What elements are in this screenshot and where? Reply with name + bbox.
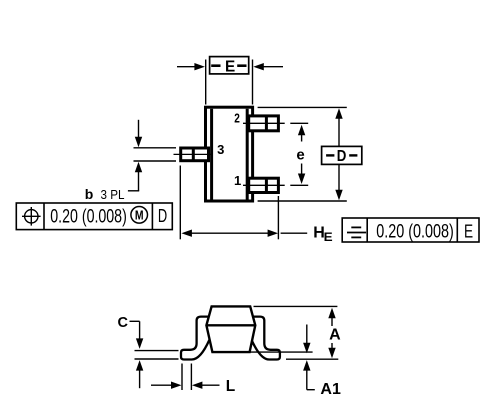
dimension b arrow up with leader xyxy=(128,162,142,191)
dimension HE dimension line with arrows xyxy=(181,230,307,237)
side view package body xyxy=(206,306,255,352)
svg-text:b: b xyxy=(85,186,94,202)
dimension b label xyxy=(85,186,125,202)
body inner line right xyxy=(246,109,249,200)
side view left lead fill xyxy=(181,317,210,360)
svg-text:A1: A1 xyxy=(320,381,341,398)
svg-text:0.20 (0.008): 0.20 (0.008) xyxy=(376,220,454,242)
pin 3 centerline xyxy=(174,153,213,155)
svg-text:E: E xyxy=(464,221,473,241)
svg-text:2: 2 xyxy=(234,110,240,125)
dimension b arrow down xyxy=(135,120,142,147)
pin 3 xyxy=(181,148,209,161)
package body (top view) xyxy=(206,107,253,201)
dimension A arrow up xyxy=(328,308,335,326)
position symbol xyxy=(22,207,41,226)
dimension L arrow right-pointing xyxy=(151,382,182,389)
dimension D arrow up xyxy=(335,108,342,146)
pin 2 xyxy=(249,116,279,131)
side view right lead fill xyxy=(251,317,280,360)
svg-text:C: C xyxy=(118,315,129,331)
dimension e extension stub top xyxy=(290,122,308,124)
svg-text:E: E xyxy=(324,230,333,244)
dimension L extension line right xyxy=(190,364,192,391)
svg-text:3: 3 xyxy=(217,142,224,157)
svg-text:e: e xyxy=(296,147,304,164)
seating plane extension line xyxy=(286,358,338,360)
symmetry symbol xyxy=(347,227,366,237)
dimension A arrow down xyxy=(328,343,335,358)
svg-text:3 PL: 3 PL xyxy=(101,187,125,202)
dimension C extension line top xyxy=(135,350,179,352)
dimension HE label xyxy=(313,225,332,244)
dimension E arrow right xyxy=(253,63,283,70)
svg-text:D: D xyxy=(158,206,167,226)
pin 1 xyxy=(249,178,279,192)
dimension A1 arrow up with elbow xyxy=(303,360,315,390)
dimension A1 arrow down xyxy=(303,325,310,354)
dimension C arrow up xyxy=(136,360,143,388)
dimension b extension line bottom xyxy=(134,160,177,162)
dimension L extension line left xyxy=(181,364,183,391)
svg-text:A: A xyxy=(329,327,341,344)
dimension D extension line top xyxy=(258,106,347,108)
dimension A top extension line xyxy=(254,305,338,307)
dimension E extension line left xyxy=(205,60,207,105)
dimension E label box xyxy=(210,57,249,76)
dimension D label box xyxy=(322,146,362,164)
side view right lead outline xyxy=(251,317,280,360)
side view left lead outline xyxy=(181,317,210,360)
body bottom extension line xyxy=(251,351,313,353)
dimension e extension stub bottom xyxy=(290,184,308,186)
pin 2 centerline xyxy=(243,122,285,124)
svg-text:M: M xyxy=(135,208,144,223)
svg-text:D: D xyxy=(337,148,347,165)
dimension e arrow up xyxy=(298,125,305,142)
dimension D arrow down xyxy=(335,164,342,200)
modifier M circle xyxy=(131,207,148,224)
svg-text:0.20 (0.008): 0.20 (0.008) xyxy=(50,205,127,227)
dimension D extension line bottom xyxy=(258,200,347,202)
dimension e arrow down xyxy=(298,164,305,185)
body inner line left xyxy=(210,109,213,200)
dimension HE extension line right xyxy=(277,196,279,239)
dimension E arrow left xyxy=(177,63,205,70)
pin 1 centerline xyxy=(243,184,285,186)
dimension L arrow left-pointing xyxy=(192,382,220,389)
feature control frame position xyxy=(16,203,172,230)
dimension C extension line bottom xyxy=(135,358,179,360)
svg-text:E: E xyxy=(225,59,236,76)
svg-text:L: L xyxy=(226,378,235,395)
dimension E extension line right xyxy=(252,60,254,105)
dimension b extension line top xyxy=(134,147,177,149)
dimension HE extension line left xyxy=(179,166,181,240)
dimension C label with leader xyxy=(118,315,140,331)
svg-text:1: 1 xyxy=(234,173,241,188)
dimension C arrow down xyxy=(136,321,143,349)
feature control frame symmetry xyxy=(342,218,479,242)
